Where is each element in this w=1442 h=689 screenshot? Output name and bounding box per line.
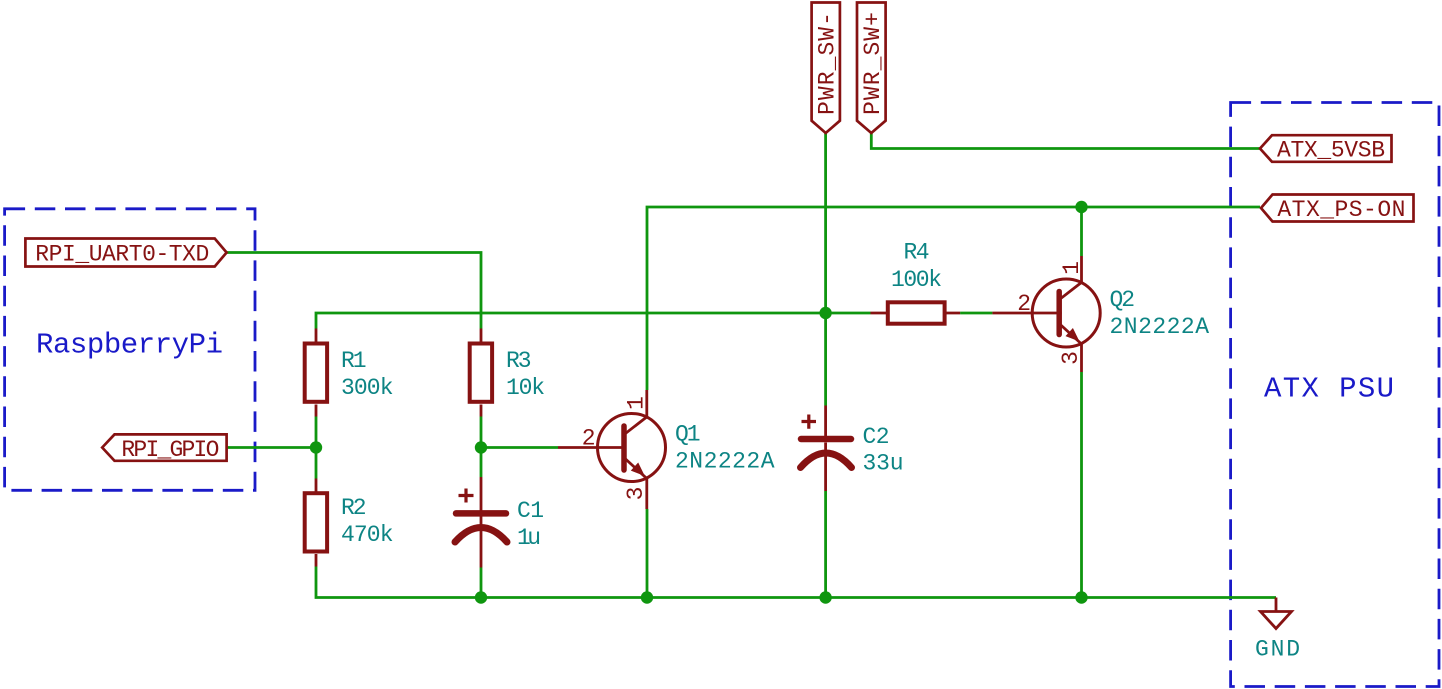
svg-text:ATX PSU: ATX PSU <box>1264 373 1394 406</box>
svg-text:33u: 33u <box>863 451 904 477</box>
svg-text:2N2222A: 2N2222A <box>1110 314 1210 340</box>
svg-text:R4: R4 <box>904 240 930 266</box>
svg-text:2N2222A: 2N2222A <box>675 449 775 475</box>
svg-text:C2: C2 <box>863 424 890 450</box>
svg-text:2: 2 <box>1017 291 1031 317</box>
svg-text:300k: 300k <box>341 375 394 401</box>
svg-text:C1: C1 <box>517 498 544 524</box>
svg-text:PWR_SW-: PWR_SW- <box>815 12 841 115</box>
svg-text:Q2: Q2 <box>1110 287 1136 313</box>
svg-text:1: 1 <box>1059 261 1085 275</box>
svg-text:RaspberryPi: RaspberryPi <box>36 329 223 362</box>
svg-text:ATX_PS-ON: ATX_PS-ON <box>1277 197 1405 223</box>
svg-text:RPI_UART0-TXD: RPI_UART0-TXD <box>35 242 209 268</box>
svg-text:100k: 100k <box>891 267 942 293</box>
svg-text:GND: GND <box>1255 637 1300 663</box>
svg-text:2: 2 <box>582 426 596 452</box>
svg-text:ATX_5VSB: ATX_5VSB <box>1277 138 1385 164</box>
svg-text:R1: R1 <box>341 348 367 374</box>
svg-text:470k: 470k <box>341 522 394 548</box>
svg-text:R2: R2 <box>341 495 367 521</box>
svg-text:10k: 10k <box>506 375 545 401</box>
svg-text:RPI_GPIO: RPI_GPIO <box>121 437 219 463</box>
svg-text:PWR_SW+: PWR_SW+ <box>860 12 886 115</box>
svg-text:Q1: Q1 <box>675 422 701 448</box>
svg-text:3: 3 <box>1058 351 1084 365</box>
svg-text:1u: 1u <box>517 525 541 551</box>
svg-text:1: 1 <box>623 396 649 410</box>
svg-text:R3: R3 <box>506 348 532 374</box>
svg-text:3: 3 <box>623 487 649 501</box>
